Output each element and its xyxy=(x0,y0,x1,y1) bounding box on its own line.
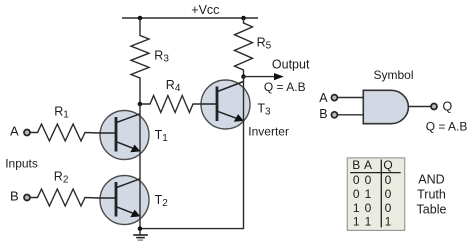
gate input lead B xyxy=(338,114,364,116)
svg-text:Symbol: Symbol xyxy=(374,68,414,82)
wire: +Vcc rail xyxy=(122,17,258,19)
svg-text:1: 1 xyxy=(353,201,360,215)
svg-text:0: 0 xyxy=(353,187,360,201)
node: rail/R3 junction xyxy=(138,16,143,21)
svg-text:Q: Q xyxy=(383,158,392,172)
truth table box xyxy=(347,158,404,231)
svg-text:B: B xyxy=(352,158,360,172)
svg-text:Table: Table xyxy=(417,202,447,216)
svg-text:0: 0 xyxy=(385,173,392,187)
svg-text:B: B xyxy=(319,107,327,121)
ground xyxy=(133,229,148,241)
wire: T1 collector-emitter chain down to ground xyxy=(139,104,141,229)
svg-text:1: 1 xyxy=(365,187,372,201)
node: ground junction xyxy=(138,226,143,231)
svg-text:Q: Q xyxy=(443,100,453,114)
node: R5/T3-collector/output junction xyxy=(241,74,246,79)
resistor R2 xyxy=(30,189,99,206)
svg-text:0: 0 xyxy=(385,187,392,201)
resistor R4 xyxy=(140,96,201,113)
gate input terminal B xyxy=(331,112,337,118)
svg-text:A: A xyxy=(364,158,372,172)
svg-text:0: 0 xyxy=(365,173,372,187)
svg-text:Q = A.B: Q = A.B xyxy=(426,120,468,134)
gate output lead Q xyxy=(409,106,431,108)
resistor R3 xyxy=(131,18,149,104)
node: R3/R4/T1-collector junction xyxy=(138,102,143,107)
gate output terminal xyxy=(431,104,437,110)
svg-text:A: A xyxy=(10,124,19,139)
AND gate symbol U1 xyxy=(363,90,408,123)
svg-text:Truth: Truth xyxy=(417,188,446,202)
transistor T1 xyxy=(99,111,149,160)
input terminal A xyxy=(24,130,30,136)
svg-text:1: 1 xyxy=(353,215,360,229)
svg-text:0: 0 xyxy=(353,173,360,187)
transistor T3 (inverter) xyxy=(201,80,250,129)
wire: T3 emitter down and across to ground xyxy=(140,77,244,229)
svg-text:A: A xyxy=(319,91,328,105)
svg-text:+Vcc: +Vcc xyxy=(191,3,219,17)
transistor T2 xyxy=(99,176,149,225)
node: rail/R5 junction xyxy=(241,16,246,21)
svg-text:Inputs: Inputs xyxy=(5,156,38,170)
svg-text:Inverter: Inverter xyxy=(248,124,289,138)
truth table column divider xyxy=(380,160,382,228)
resistor R1 xyxy=(30,124,99,141)
svg-text:AND: AND xyxy=(418,172,444,186)
svg-text:1: 1 xyxy=(385,215,392,229)
gate input terminal A xyxy=(331,95,337,101)
svg-text:Q = A.B: Q = A.B xyxy=(264,80,306,94)
input terminal B xyxy=(24,195,30,201)
svg-text:B: B xyxy=(10,189,19,204)
svg-text:0: 0 xyxy=(365,201,372,215)
svg-text:0: 0 xyxy=(385,201,392,215)
output arrow xyxy=(244,73,284,80)
truth table header rule xyxy=(350,172,401,174)
svg-text:1: 1 xyxy=(365,215,372,229)
svg-text:Output: Output xyxy=(272,57,310,71)
resistor R5 xyxy=(235,18,253,77)
gate input lead A xyxy=(338,97,364,99)
